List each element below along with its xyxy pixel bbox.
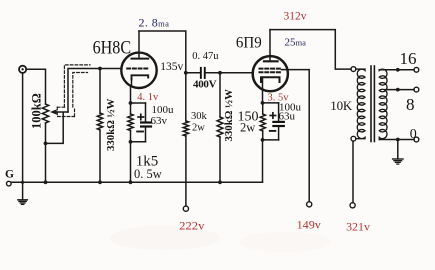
wire cathode junction rail: [131, 102, 146, 104]
6H8C plate lead: [138, 31, 140, 59]
svg-text:25ma: 25ma: [285, 36, 307, 48]
ground bus: [11, 181, 263, 183]
6H8C plate bar: [132, 58, 149, 60]
wire secondary tap 0: [379, 139, 414, 141]
potentiometer R 100k zigzag: [42, 104, 48, 123]
resistor 30k plate load: [185, 73, 187, 121]
tube 6H8C V1: [121, 53, 156, 88]
svg-text:400V: 400V: [193, 79, 217, 91]
transformer core: [370, 66, 372, 142]
wire 30k lead to 222v terminal: [185, 136, 187, 206]
6H8C cathode lead: [131, 79, 132, 103]
6П9 cathode lead: [262, 77, 264, 103]
ground at secondary 0 tap: [397, 140, 399, 159]
shield dashed outline: [57, 65, 90, 117]
6H8C cathode: [132, 75, 149, 79]
wire wiper signal up to grid: [68, 69, 122, 113]
terminal G: [7, 181, 12, 186]
resistor 1k5: [130, 103, 132, 114]
capacitor 100u (6П9 cathode): [278, 103, 280, 121]
wire jack to pot top: [26, 69, 45, 104]
svg-text:8: 8: [406, 95, 415, 114]
node 6П9 cathode junction: [261, 101, 265, 105]
wire jack sleeve down to bus: [22, 73, 24, 182]
svg-text:100u: 100u: [152, 104, 175, 116]
node grid junction: [98, 67, 102, 71]
svg-text:222v: 222v: [179, 218, 204, 232]
svg-text:63u: 63u: [279, 111, 296, 123]
6H8C grid dashes: [127, 68, 148, 70]
transformer primary winding: [356, 69, 365, 139]
ground near G: [22, 182, 24, 200]
resistor 330k (6H8C grid): [99, 69, 101, 114]
svg-text:135v: 135v: [160, 61, 183, 73]
svg-text:330kΩ ½W: 330kΩ ½W: [223, 89, 235, 142]
plus mark: [138, 116, 143, 118]
svg-text:10K: 10K: [330, 98, 353, 113]
wire cathode network to bus: [130, 142, 132, 182]
svg-text:0: 0: [410, 127, 417, 142]
resistor 150: [262, 103, 264, 114]
wire secondary tap 8: [385, 89, 414, 91]
minus mark: [270, 130, 276, 132]
bus right upturn: [262, 140, 264, 182]
wire shield ground drop: [46, 113, 64, 143]
wire plate top run: [139, 31, 186, 73]
tube 6П9 V2: [253, 56, 288, 91]
6П9 plate bar: [264, 60, 278, 62]
terminal 321v: [350, 203, 355, 208]
svg-text:330kΩ ½W: 330kΩ ½W: [105, 98, 117, 151]
wire primary bottom to 321v: [352, 141, 354, 203]
transformer T1 primary terminals: [351, 67, 356, 72]
6П9 plate lead: [269, 30, 271, 62]
svg-text:16: 16: [400, 49, 417, 68]
svg-text:2w: 2w: [192, 122, 205, 133]
svg-text:0. 47u: 0. 47u: [192, 51, 219, 62]
wire plate to transformer (312v): [270, 30, 351, 70]
wire secondary tap 16: [379, 69, 414, 71]
wire screen to 149v: [282, 70, 310, 202]
svg-text:100kΩ: 100kΩ: [30, 93, 44, 129]
capacitor 100u (6H8C cathode): [145, 103, 147, 121]
svg-text:2. 8ma: 2. 8ma: [139, 16, 170, 30]
resistor 330k (6П9 grid): [219, 73, 221, 117]
6П9 cathode: [261, 77, 280, 82]
svg-text:2w: 2w: [240, 120, 255, 134]
svg-text:312v: 312v: [284, 10, 307, 22]
svg-text:4. 1v: 4. 1v: [137, 92, 159, 103]
terminal 222v: [183, 206, 188, 211]
svg-text:0. 5w: 0. 5w: [134, 167, 162, 181]
svg-text:30k: 30k: [191, 111, 208, 122]
svg-text:6H8C: 6H8C: [93, 38, 132, 58]
6П9 grid dashes: [260, 71, 282, 73]
svg-text:321v: 321v: [346, 220, 370, 234]
plus mark: [270, 115, 275, 117]
node pot-bottom/shield junction: [44, 142, 48, 146]
svg-text:G: G: [5, 168, 14, 180]
6П9 screen dashes: [260, 68, 282, 70]
svg-text:6П9: 6П9: [236, 35, 262, 52]
svg-text:63v: 63v: [151, 115, 168, 127]
capacitor 0.47u coupling: [186, 72, 200, 74]
transformer secondary winding: [379, 69, 387, 139]
input jack J1: [19, 66, 26, 73]
pot wiper arrow: [56, 111, 68, 113]
wire 6П9 cathode junction rail: [263, 102, 279, 104]
svg-text:149v: 149v: [297, 218, 321, 232]
minus mark: [137, 131, 143, 133]
node cathode junction: [129, 101, 133, 105]
node bus junctions: [44, 180, 48, 184]
terminal 149v: [307, 202, 312, 207]
pot lower lead to bus: [45, 123, 47, 182]
